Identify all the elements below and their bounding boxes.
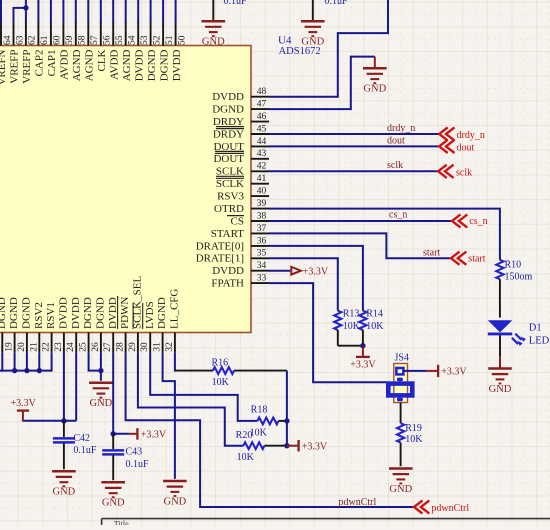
svg-text:43: 43 <box>257 149 267 159</box>
svg-text:36: 36 <box>257 236 267 246</box>
power port +3.3V (bottom left, bar up) <box>11 398 37 422</box>
svg-text:44: 44 <box>257 137 267 147</box>
capacitor lead 0.1uF (right, off-screen cap) <box>312 0 314 21</box>
pin 58 AGND (top) <box>71 22 88 81</box>
svg-text:R14: R14 <box>366 308 383 319</box>
svg-text:54: 54 <box>128 35 138 45</box>
ground (pin31/32) <box>163 481 187 507</box>
svg-text:61: 61 <box>40 35 50 45</box>
svg-text:40: 40 <box>257 187 267 197</box>
svg-text:GND: GND <box>102 498 125 509</box>
svg-text:53: 53 <box>140 35 150 45</box>
junction pin20 <box>24 368 29 373</box>
wire pin31 DGND jog to GND <box>163 352 175 479</box>
wire pin26 DGND down <box>100 352 102 380</box>
pin 18 DGND (bottom) <box>0 297 8 352</box>
pin 32 LL_CFG (bottom) <box>165 289 181 353</box>
overline bar pin27 DVDD <box>117 296 119 329</box>
svg-text:CLK: CLK <box>96 49 108 71</box>
svg-text:+3.3V: +3.3V <box>302 441 328 452</box>
pin 34 DVDD (right) <box>212 261 269 277</box>
wires from top pins going up <box>1 0 176 23</box>
svg-text:57: 57 <box>90 35 100 45</box>
junction R14 bottom <box>360 343 365 348</box>
pin 36 DRATE[0] (right) <box>196 236 269 252</box>
pin 59 AVDD (top) <box>59 22 76 80</box>
wire pin29 SCLK_SEL to R20 <box>138 352 244 445</box>
wire pin36 DRATE[0] to R14 <box>269 246 363 309</box>
svg-text:0.1uF: 0.1uF <box>325 0 349 7</box>
svg-text:DGND: DGND <box>146 49 158 81</box>
junction pin21 <box>37 368 42 373</box>
svg-text:CAP2: CAP2 <box>34 50 46 77</box>
resistor R18 <box>250 405 287 439</box>
svg-text:48: 48 <box>257 87 267 97</box>
svg-text:CAP1: CAP1 <box>46 50 58 77</box>
svg-text:AGND: AGND <box>71 49 83 81</box>
svg-text:JS4: JS4 <box>395 353 409 364</box>
port chevron dout <box>439 140 454 153</box>
svg-text:10K: 10K <box>237 452 255 463</box>
svg-text:RSV1: RSV1 <box>45 302 57 329</box>
svg-text:LVDS: LVDS <box>144 301 156 329</box>
pin 51 DGND (top) <box>158 22 175 81</box>
pin 22 RSV1 (bottom) <box>42 302 58 352</box>
pin 23 DVDD (bottom) <box>54 297 70 352</box>
svg-text:10K: 10K <box>343 321 361 332</box>
svg-text:VREFP: VREFP <box>21 50 33 84</box>
LED D1 <box>488 320 550 346</box>
svg-text:C42: C42 <box>73 433 90 444</box>
junction pin26 <box>98 368 103 373</box>
svg-text:41: 41 <box>257 174 267 184</box>
wire JS4 pin1 to +3.3V <box>404 370 427 372</box>
capacitor lead 0.1uF (left, off-screen cap) <box>212 0 214 21</box>
svg-text:RSV3: RSV3 <box>217 191 244 203</box>
svg-text:DGND: DGND <box>212 104 244 116</box>
svg-text:33: 33 <box>257 274 267 284</box>
pin 61 CAP2 (top) <box>34 22 51 77</box>
wire pin39 OTRD to R10 <box>269 209 500 258</box>
pin 42 SCLK (right) <box>216 162 269 178</box>
svg-text:38: 38 <box>257 211 267 221</box>
svg-text:150om: 150om <box>505 271 533 282</box>
pin 64 VREFN (top) <box>0 22 13 86</box>
svg-text:26: 26 <box>91 342 101 352</box>
svg-text:VREFN: VREFN <box>0 49 8 85</box>
svg-text:GND: GND <box>301 37 324 48</box>
svg-text:10K: 10K <box>212 377 230 388</box>
wire pin25 to pin26 <box>89 352 101 370</box>
wire start (pin37) <box>269 233 452 258</box>
pin 27 DVDD (bottom) <box>103 297 119 352</box>
pin 47 DGND (right) <box>212 100 269 116</box>
svg-text:ADS1672: ADS1672 <box>279 46 321 57</box>
ground (pin47) <box>363 57 387 95</box>
svg-text:DRATE[0]: DRATE[0] <box>196 240 244 252</box>
svg-text:C43: C43 <box>126 446 143 457</box>
svg-text:63: 63 <box>15 35 25 45</box>
svg-text:START: START <box>211 228 245 240</box>
pin 38 CS (right) <box>231 211 269 227</box>
wire pin48 DVDD to top <box>269 0 388 97</box>
pin 26 DGND (bottom) <box>91 297 107 352</box>
svg-text:39: 39 <box>257 199 267 209</box>
svg-text:60: 60 <box>53 35 63 45</box>
svg-text:10K: 10K <box>366 321 384 332</box>
svg-text:OTRD: OTRD <box>214 203 244 215</box>
svg-text:R20: R20 <box>236 430 253 441</box>
svg-text:DGND: DGND <box>95 297 107 329</box>
svg-text:+3.3V: +3.3V <box>350 359 376 370</box>
pin 55 AVDD (top) <box>108 22 125 80</box>
svg-text:R13: R13 <box>343 308 360 319</box>
svg-text:AGND: AGND <box>121 49 133 81</box>
svg-text:D1: D1 <box>529 322 542 333</box>
resistor R13 <box>334 308 361 345</box>
svg-text:DVDD: DVDD <box>212 265 244 277</box>
svg-text:0.1uF: 0.1uF <box>73 445 97 456</box>
pin 48 DVDD (right) <box>212 87 269 103</box>
overline bar DRDY 45 <box>216 128 244 130</box>
resistor R19 <box>397 423 423 466</box>
pin 43 DOUT (right) <box>213 149 269 165</box>
svg-text:10K: 10K <box>405 434 423 445</box>
svg-text:51: 51 <box>165 35 175 45</box>
pin 30 LVDS (bottom) <box>140 301 156 352</box>
svg-text:pdwnCtrl: pdwnCtrl <box>431 503 469 514</box>
svg-text:dout: dout <box>457 142 475 153</box>
junction pin19 <box>12 368 17 373</box>
lead JS4 bottom to R19 <box>400 403 402 424</box>
svg-text:R19: R19 <box>405 423 422 434</box>
svg-text:GND: GND <box>389 484 412 495</box>
svg-text:52: 52 <box>152 35 162 45</box>
wire pins 23/24 DVDD to +3.3V rail <box>23 352 76 421</box>
pin 33 FPATH (right) <box>211 274 269 290</box>
svg-text:GND: GND <box>53 487 76 498</box>
svg-text:R10: R10 <box>505 259 522 270</box>
svg-text:24: 24 <box>66 342 76 352</box>
svg-text:+3.3V: +3.3V <box>441 367 467 378</box>
svg-text:DOUT: DOUT <box>213 153 244 165</box>
junction pin62 <box>23 5 28 10</box>
wire dout (pin44) <box>269 145 441 147</box>
pin 52 DGND (top) <box>146 22 163 81</box>
resistor R20 <box>236 430 287 463</box>
svg-text:31: 31 <box>153 342 163 352</box>
junction R18/+3.3V rail <box>284 418 289 423</box>
lead LED to GND <box>499 335 501 356</box>
ground (pin26) <box>89 383 113 409</box>
ground (C42) <box>52 471 76 497</box>
pin 25 DGND (bottom) <box>79 297 95 352</box>
pin 39 OTRD (right) <box>214 199 269 215</box>
capacitor C43 <box>102 434 149 480</box>
svg-text:DGND: DGND <box>0 297 8 329</box>
pin 28 PDWN (bottom) <box>116 297 132 353</box>
wire pin32 LL_CFG down <box>174 352 176 371</box>
svg-text:sclk: sclk <box>387 160 403 171</box>
pin 35 DRATE[1] (right) <box>196 249 269 265</box>
wire joining R13/R14 bottoms <box>338 345 363 347</box>
wire sclk (pin42) <box>269 170 440 172</box>
svg-text:50: 50 <box>177 35 187 45</box>
svg-text:20: 20 <box>17 342 27 352</box>
wire pin47 DGND to GND <box>269 57 375 110</box>
pin 44 DOUT (right) <box>213 137 269 153</box>
ground (R19) <box>389 469 413 495</box>
wire cs_n (pin38) <box>269 220 453 222</box>
wire pin27 DVDD down to C43 <box>112 352 114 434</box>
svg-text:62: 62 <box>28 35 38 45</box>
pin 31 DGND (bottom) <box>153 297 169 352</box>
wire pin35 DRATE[1] to R13 <box>269 258 338 309</box>
svg-text:30: 30 <box>140 342 150 352</box>
svg-text:DGND: DGND <box>21 297 33 329</box>
svg-text:CS: CS <box>231 215 244 227</box>
svg-text:GND: GND <box>90 398 113 409</box>
svg-text:DGND: DGND <box>158 49 170 81</box>
svg-text:56: 56 <box>103 35 113 45</box>
svg-text:42: 42 <box>257 162 267 172</box>
title block border <box>102 519 550 529</box>
pin 60 CAP1 (top) <box>46 22 63 77</box>
svg-text:SCLK: SCLK <box>216 178 244 190</box>
port chevron sclk <box>438 165 453 178</box>
wire R16 right down to +3.3V <box>286 371 288 446</box>
svg-text:46: 46 <box>257 112 267 122</box>
svg-text:47: 47 <box>257 100 267 110</box>
port chevron drdy_n <box>439 127 454 140</box>
pin 63 VREFP (top) <box>9 22 26 84</box>
wire pin33 FPATH to JS4 <box>269 283 386 382</box>
pin 54 AGND (top) <box>121 22 138 81</box>
pin 45 DRDY (right) <box>213 124 269 140</box>
svg-text:AVDD: AVDD <box>59 49 71 79</box>
overline bars pin29 SCLK <box>132 303 134 329</box>
svg-text:+3.3V: +3.3V <box>11 398 37 409</box>
wire pin63 L to pin62 <box>14 8 26 23</box>
ground (right 0.1uF cap) <box>301 21 325 47</box>
pin 24 DVDD (bottom) <box>66 297 82 352</box>
ground (LED) <box>488 356 512 395</box>
svg-text:37: 37 <box>257 224 267 234</box>
port chevron cs_n <box>452 214 467 227</box>
svg-text:28: 28 <box>116 342 126 352</box>
svg-text:DVDD: DVDD <box>171 49 183 81</box>
svg-text:FPATH: FPATH <box>211 278 244 290</box>
svg-text:sclk: sclk <box>456 167 472 178</box>
power port +3.3V (pin34, arrow style) <box>291 267 301 275</box>
svg-text:start: start <box>468 253 485 264</box>
underline bar SCLK 42 <box>216 175 244 177</box>
pin 37 START (right) <box>211 224 269 240</box>
svg-text:R18: R18 <box>251 405 268 416</box>
svg-text:cs_n: cs_n <box>389 209 407 220</box>
svg-text:0.1uF: 0.1uF <box>224 0 248 7</box>
svg-text:dout: dout <box>387 136 405 147</box>
svg-text:GND: GND <box>363 84 386 95</box>
power port +3.3V (JS4, bar right) <box>426 365 467 378</box>
svg-text:19: 19 <box>5 342 15 352</box>
wire pin27 to +3.3V <box>113 433 129 435</box>
pin 20 DGND (bottom) <box>17 297 33 352</box>
port chevron start <box>451 252 466 265</box>
svg-text:0.1uF: 0.1uF <box>126 459 150 470</box>
svg-text:LED: LED <box>529 335 550 346</box>
pin 21 RSV2 (bottom) <box>29 302 45 352</box>
svg-text:GND: GND <box>489 384 512 395</box>
svg-text:22: 22 <box>42 342 52 352</box>
svg-text:32: 32 <box>165 342 175 352</box>
IC U4 ADS1672 body <box>0 46 251 333</box>
capacitor C42 <box>53 421 97 469</box>
svg-text:+3.3V: +3.3V <box>303 267 329 278</box>
overline bar SCLK 41 <box>216 177 244 179</box>
pin 46 DRDY (right) <box>213 112 269 128</box>
svg-text:29: 29 <box>128 342 138 352</box>
resistor R10 <box>496 258 532 318</box>
ground (C43) <box>101 482 125 508</box>
pin 50 DVDD (top) <box>171 22 188 81</box>
svg-text:21: 21 <box>29 342 39 352</box>
svg-text:VREFP: VREFP <box>9 50 21 84</box>
pin 57 AGND (top) <box>84 22 101 81</box>
svg-text:58: 58 <box>78 35 88 45</box>
svg-text:55: 55 <box>115 35 125 45</box>
svg-text:DVDD: DVDD <box>58 297 70 329</box>
svg-text:cs_n: cs_n <box>469 216 487 227</box>
resistor R14 <box>359 308 384 345</box>
jumper JS4 <box>388 353 412 403</box>
svg-text:DRDY: DRDY <box>213 128 244 140</box>
svg-text:drdy_n: drdy_n <box>457 130 485 141</box>
resistor R16 <box>211 357 286 388</box>
svg-text:+3.3V: +3.3V <box>141 429 167 440</box>
power port +3.3V (right of R20, bar right) <box>287 440 328 452</box>
svg-text:DGND: DGND <box>82 297 94 329</box>
svg-text:start: start <box>423 247 440 258</box>
pin 41 SCLK (right) <box>216 174 269 190</box>
svg-text:DGND: DGND <box>156 297 168 329</box>
underline bar DRDY 46 <box>216 126 244 128</box>
svg-text:DVDD: DVDD <box>70 297 82 329</box>
svg-text:34: 34 <box>257 261 267 271</box>
svg-text:LL_CFG: LL_CFG <box>169 289 181 329</box>
overline bar DOUT 43 <box>215 152 244 154</box>
svg-text:64: 64 <box>3 35 13 45</box>
svg-text:U4: U4 <box>278 35 292 47</box>
svg-text:R16: R16 <box>211 357 228 368</box>
underline bar DOUT 44 <box>215 150 244 152</box>
wire pin34 DVDD to +3.3V <box>269 270 290 272</box>
wire pin30 LVDS to R18 <box>150 352 257 421</box>
ground (left 0.1uF cap) <box>202 21 226 47</box>
pin 56 CLK (top) <box>96 22 113 72</box>
svg-text:GND: GND <box>164 496 187 507</box>
svg-text:27: 27 <box>103 342 113 352</box>
pin 40 RSV3 (right) <box>217 187 269 203</box>
svg-text:DGND: DGND <box>8 297 20 329</box>
svg-text:23: 23 <box>54 342 64 352</box>
svg-text:AGND: AGND <box>84 49 96 81</box>
svg-text:59: 59 <box>65 35 75 45</box>
junction pin27/C43 <box>111 431 116 436</box>
junction R20/+3.3V rail <box>284 443 289 448</box>
pin 19 DGND (bottom) <box>5 297 21 352</box>
svg-text:Title: Title <box>114 520 129 526</box>
junction pin23/C42 <box>61 418 66 423</box>
svg-text:25: 25 <box>79 342 89 352</box>
svg-text:DVDD: DVDD <box>133 49 145 81</box>
pin 53 DVDD (top) <box>133 22 150 81</box>
wire bus pins 18-22 DGND/RSV <box>0 352 52 371</box>
svg-text:drdy_n: drdy_n <box>387 123 415 134</box>
svg-text:DVDD: DVDD <box>107 297 119 329</box>
svg-text:45: 45 <box>257 124 267 134</box>
svg-text:RSV2: RSV2 <box>33 302 45 329</box>
svg-text:35: 35 <box>257 249 267 259</box>
power port +3.3V (below R13/R14, bar down) <box>350 346 376 371</box>
svg-text:GND: GND <box>202 37 225 48</box>
svg-text:pdwnCtrl: pdwnCtrl <box>339 497 377 508</box>
wire drdy_n (pin45) <box>269 133 441 135</box>
svg-text:DRATE[1]: DRATE[1] <box>196 253 244 265</box>
svg-text:PDWN: PDWN <box>119 297 131 329</box>
wire pin28 PDWN to pdwnCtrl <box>126 352 416 507</box>
svg-text:AVDD: AVDD <box>108 49 120 79</box>
overline bar CS <box>227 215 244 217</box>
wire pin32 to R16 <box>175 370 213 372</box>
pin 29 SCLK_SEL (bottom) <box>128 276 144 353</box>
svg-text:DVDD: DVDD <box>212 91 244 103</box>
port chevron pdwnCtrl <box>414 500 429 513</box>
power port +3.3V (C43, bar right) <box>129 428 167 440</box>
pin 62 VREFP (top) <box>21 22 38 84</box>
